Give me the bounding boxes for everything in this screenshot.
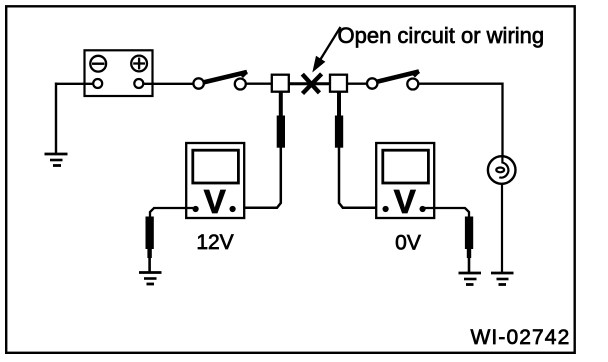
lamp — [488, 156, 516, 184]
voltmeter V1 left probe to ground — [146, 208, 194, 272]
probe under connector 1 — [238, 92, 285, 208]
wire battery to switch SW1 — [143, 83, 195, 85]
voltmeter V1 — [186, 143, 244, 220]
open circuit X mark — [302, 74, 321, 94]
ground (battery, left) — [45, 154, 68, 166]
svg-text:12V: 12V — [196, 231, 233, 254]
ground (V1 probe) — [139, 273, 162, 285]
connector square 2 — [330, 75, 347, 92]
switch SW2 — [367, 71, 419, 90]
battery — [85, 50, 153, 96]
arrow to X — [314, 27, 341, 71]
wire left vertical down to ground — [55, 83, 57, 155]
ground (lamp) — [491, 273, 514, 285]
wire between connector squares (through X) — [288, 82, 331, 85]
wire battery left terminal to left vertical — [56, 83, 95, 85]
wire lamp to ground — [501, 183, 503, 273]
svg-text:V: V — [204, 183, 226, 220]
svg-text:0V: 0V — [395, 232, 421, 255]
voltmeter V2 right probe to ground — [425, 208, 473, 273]
svg-text:WI-02742: WI-02742 — [471, 326, 571, 349]
switch SW1 — [193, 72, 247, 90]
wire SW1 to connector square 1 — [245, 83, 273, 85]
voltmeter V2 — [376, 143, 434, 220]
svg-text:Open circuit or wiring: Open circuit or wiring — [338, 23, 545, 48]
probe under connector 2 — [335, 92, 382, 208]
wire SW2 to right corner and down to lamp — [418, 84, 503, 157]
ground (V2 probe) — [459, 273, 482, 285]
connector square 1 — [272, 75, 289, 92]
svg-text:V: V — [394, 183, 416, 220]
wire connector 2 to switch SW2 — [346, 83, 369, 85]
